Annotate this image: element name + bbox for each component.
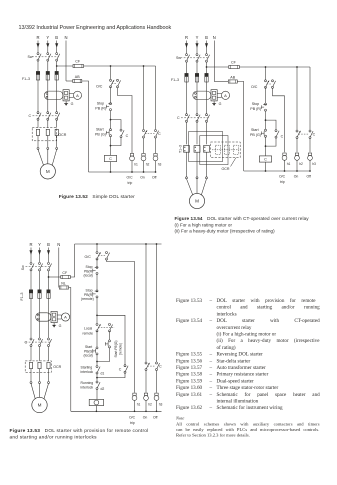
svg-text:C: C	[126, 134, 129, 138]
wire B	[48, 347, 50, 361]
wire O/C aux to h1	[118, 88, 133, 153]
wire R	[30, 298, 32, 338]
svg-text:overcurrent relay: overcurrent relay	[217, 325, 252, 331]
wire h1 to bus	[134, 400, 136, 411]
contactor coil C	[104, 155, 116, 161]
node start branch	[110, 119, 112, 121]
svg-text:Auto transformer starter: Auto transformer starter	[217, 364, 267, 371]
overcurrent contact O/C	[96, 252, 98, 254]
selector linkage	[98, 327, 114, 329]
motor terminal Y	[47, 147, 49, 149]
svg-text:R: R	[36, 35, 39, 40]
fuse F1	[29, 290, 32, 299]
wire B	[56, 136, 58, 148]
svg-text:PB(G): PB(G)	[84, 349, 93, 353]
wire h2 to bus	[296, 160, 298, 171]
svg-text:O/C: O/C	[85, 255, 92, 259]
CT with ammeter and ground G	[44, 91, 63, 99]
OCR heater R	[36, 129, 39, 135]
switch Sw pole Y	[196, 54, 198, 56]
svg-text:h1: h1	[287, 162, 291, 166]
svg-text:PB (R): PB (R)	[95, 107, 106, 111]
svg-text:Sw: Sw	[28, 55, 33, 59]
svg-text:Schematic for instrument wirin: Schematic for instrument wiring	[217, 404, 284, 411]
wire B	[206, 152, 208, 177]
wire Y	[196, 152, 198, 177]
svg-text:C: C	[25, 341, 28, 345]
wire Y	[196, 82, 198, 114]
wire N to AB	[214, 81, 228, 83]
svg-text:internal illumination: internal illumination	[217, 399, 259, 405]
wire h2	[296, 67, 298, 130]
node start branch	[265, 119, 267, 121]
svg-text:Off: Off	[307, 174, 312, 178]
svg-text:C: C	[29, 114, 32, 118]
wire h2	[143, 66, 145, 129]
supply arrow R	[37, 41, 39, 52]
wire R	[37, 61, 39, 71]
svg-text:–: –	[209, 392, 213, 398]
aux contact C for h2	[143, 130, 145, 132]
fuse F3	[47, 290, 50, 299]
wire main	[265, 87, 267, 103]
svg-text:Figure 13.59: Figure 13.59	[176, 378, 202, 384]
wire Y	[47, 51, 49, 53]
svg-text:Sw: Sw	[21, 265, 25, 270]
svg-text:C: C	[109, 157, 112, 161]
svg-text:N: N	[213, 35, 216, 40]
O/C linkage	[112, 83, 117, 85]
supply arrow B	[206, 41, 208, 52]
latch contact C	[275, 130, 277, 132]
svg-text:R: R	[29, 242, 32, 247]
lamp h2	[144, 393, 147, 396]
svg-text:O/C: O/C	[96, 85, 103, 89]
node rejoin	[265, 145, 267, 147]
fuse F1	[36, 71, 39, 80]
wire h3 lamp	[156, 371, 158, 393]
CT T3	[204, 146, 210, 153]
supply arrow Y	[39, 248, 41, 259]
aux contact C for h3	[156, 362, 158, 364]
wire B	[56, 120, 58, 127]
aux contact C for h2	[145, 362, 147, 364]
svg-text:Note: Note	[175, 416, 184, 421]
O/C linkage	[98, 255, 106, 257]
svg-text:d1: d1	[101, 372, 105, 376]
svg-text:Figure 13.53DOL starter with p: Figure 13.53DOL starter with provision f…	[10, 428, 149, 434]
wire h3 to bus	[155, 161, 157, 172]
aux contact C for h3	[155, 130, 157, 132]
svg-text:OCR: OCR	[222, 167, 230, 171]
svg-text:(i) For a high-rating motor or: (i) For a high-rating motor or	[217, 331, 277, 338]
svg-text:Figure 13.58: Figure 13.58	[176, 372, 202, 378]
control fuse CF	[61, 275, 71, 278]
wire h2 lamp	[145, 371, 147, 393]
svg-text:OCR: OCR	[58, 133, 66, 137]
wire N	[65, 41, 67, 82]
wire O/C aux to h1	[273, 88, 285, 152]
CT T1	[184, 146, 190, 153]
switch Sw pole R	[30, 262, 32, 264]
OCR heater Y	[46, 129, 49, 135]
OCR heater B	[55, 129, 58, 135]
svg-text:Starting: Starting	[81, 366, 93, 370]
svg-text:Y: Y	[46, 35, 49, 40]
svg-text:(i) For a high rating motor or: (i) For a high rating motor or	[175, 223, 233, 228]
latch rejoin wire	[266, 138, 277, 146]
selector remote pole	[109, 323, 111, 325]
supply arrow R	[186, 41, 188, 52]
wire R	[186, 152, 188, 177]
contactor C pole B	[206, 114, 208, 116]
svg-text:Figure 13.52Simple DOL starter: Figure 13.52Simple DOL starter	[59, 194, 135, 200]
supply arrow R	[30, 248, 32, 259]
wire Y	[47, 136, 49, 148]
svg-text:Primary resistance starter: Primary resistance starter	[217, 372, 269, 378]
O/C linkage	[267, 83, 272, 85]
control fuse CF	[73, 64, 84, 67]
wire h3 lamp	[309, 139, 311, 153]
svg-text:O/C: O/C	[279, 174, 286, 178]
wire h2 to bus	[145, 400, 147, 411]
svg-text:Figure 13.57: Figure 13.57	[176, 365, 202, 371]
start pushbutton PB(G)	[110, 129, 112, 131]
CT T2	[194, 146, 200, 153]
motor lead B	[44, 384, 49, 400]
wire h1 to bus	[131, 161, 133, 172]
svg-text:AB: AB	[75, 75, 80, 79]
node h2 drop	[296, 66, 298, 68]
svg-text:trip: trip	[280, 180, 285, 184]
wire R	[37, 136, 39, 148]
svg-text:trip: trip	[128, 181, 133, 185]
wire main	[265, 111, 267, 129]
svg-text:On: On	[140, 175, 145, 179]
motor lead B	[201, 179, 206, 195]
start pushbutton local	[96, 347, 98, 349]
OCR pointer	[231, 158, 237, 167]
motor lead Y	[39, 384, 41, 398]
wire R	[186, 122, 188, 144]
wire Y	[39, 298, 41, 338]
svg-text:On: On	[294, 174, 299, 178]
contactor C pole Y	[196, 114, 198, 116]
wire main	[96, 298, 98, 323]
OCR heater B	[47, 362, 50, 368]
O/C aux contact	[106, 252, 108, 254]
OCR heater Y	[38, 362, 41, 368]
node main drop	[110, 65, 112, 67]
svg-text:C: C	[177, 116, 180, 120]
fuse F3	[205, 73, 208, 82]
motor lead Y	[196, 179, 198, 194]
lamp h2	[295, 153, 298, 156]
svg-text:C: C	[119, 367, 122, 371]
svg-text:Schematic for panel space heat: Schematic for panel space heater and	[217, 391, 321, 398]
svg-text:h2: h2	[146, 163, 150, 167]
svg-text:–: –	[209, 318, 213, 324]
svg-text:Three stage stator-rotor start: Three stage stator-rotor starter	[217, 385, 279, 391]
wire R	[30, 369, 32, 382]
latch contact C	[124, 365, 126, 367]
wire O/C aux to h1	[107, 260, 135, 393]
fuse F2	[46, 71, 49, 80]
svg-text:–: –	[209, 358, 213, 364]
latch rejoin wire	[97, 373, 125, 377]
svg-text:T1–3: T1–3	[179, 145, 183, 153]
svg-text:O/C: O/C	[127, 175, 134, 179]
branch wire to C latch	[266, 120, 277, 129]
wire remote rejoin	[97, 348, 110, 362]
fuse F2	[195, 73, 198, 82]
wire N	[213, 41, 215, 82]
svg-text:All control schemes shown with: All control schemes shown with auxiliary…	[176, 421, 320, 426]
motor lead R	[187, 179, 193, 195]
interlock contact d2	[96, 381, 98, 383]
svg-text:DOL starter with CT-operated: DOL starter with CT-operated	[217, 318, 321, 324]
svg-text:and starting and/or running in: and starting and/or running interlocks	[10, 434, 98, 440]
svg-text:DOL starter with provision for: DOL starter with provision for remote	[217, 297, 317, 304]
node rejoin	[110, 145, 112, 147]
svg-text:–: –	[209, 378, 213, 384]
svg-text:Stop: Stop	[252, 102, 259, 106]
wire R	[186, 82, 188, 114]
wire R	[30, 347, 32, 361]
supply arrow Y	[196, 41, 198, 52]
motor terminal R	[30, 382, 32, 384]
CT with ammeter and ground G	[193, 91, 211, 99]
CT secondary loop outer	[189, 132, 223, 162]
svg-text:(local): (local)	[84, 354, 93, 358]
svg-text:C: C	[264, 158, 267, 162]
node B-CF tap	[48, 276, 50, 278]
svg-text:of rating): of rating)	[217, 344, 236, 351]
wire N to AB	[66, 80, 73, 82]
bottom control bus	[89, 171, 156, 173]
svg-text:h3: h3	[312, 162, 316, 166]
svg-text:Stop: Stop	[86, 265, 93, 269]
OCR dashed link	[212, 149, 239, 151]
overload relay OCR box	[25, 361, 51, 372]
svg-text:Figure 13.55: Figure 13.55	[176, 352, 202, 358]
wire h3	[155, 66, 157, 129]
start pushbutton remote	[109, 340, 111, 342]
contactor coil C	[89, 399, 103, 405]
svg-text:Start: Start	[251, 128, 259, 132]
lamp h3	[155, 393, 158, 396]
wire coil to bus	[110, 162, 112, 172]
wire h2 lamp	[296, 139, 298, 153]
wire Y	[39, 347, 41, 361]
aux contact C for h3	[309, 130, 311, 132]
svg-text:B: B	[205, 35, 208, 40]
h2-h3 linkage	[299, 133, 310, 135]
lamp h2	[142, 154, 145, 157]
fuse AB	[228, 80, 237, 83]
wire Y	[47, 80, 49, 112]
wire h2	[145, 244, 147, 362]
latch contact C	[120, 129, 122, 131]
wire B	[206, 122, 208, 144]
wire h2 to bus	[143, 161, 145, 172]
svg-text:A: A	[224, 93, 227, 98]
lamp h3	[308, 153, 311, 156]
stop pushbutton local	[96, 266, 98, 268]
svg-text:A: A	[76, 93, 79, 98]
svg-text:OCR: OCR	[53, 365, 61, 369]
wire Y	[47, 120, 49, 127]
svg-text:PB (R): PB (R)	[250, 107, 261, 111]
switch Sw linkage	[32, 56, 59, 58]
svg-text:–: –	[209, 298, 213, 304]
wire B to CF	[49, 276, 61, 278]
latch rejoin wire	[111, 138, 122, 146]
svg-text:Y: Y	[196, 35, 199, 40]
wire R	[30, 271, 32, 290]
aux contact C for h2	[296, 130, 298, 132]
wire main	[96, 244, 98, 251]
OCR element 3	[233, 145, 238, 154]
node main drop	[265, 66, 267, 68]
node B-CF tap	[206, 66, 208, 68]
lamp h1	[133, 393, 136, 396]
motor M	[40, 164, 55, 179]
wire local path	[96, 331, 98, 347]
switch Sw linkage	[26, 266, 51, 268]
contactor coil C	[259, 156, 271, 162]
wire h3	[309, 67, 311, 130]
wire R	[37, 51, 39, 53]
switch Sw linkage	[181, 57, 209, 59]
svg-text:–: –	[209, 365, 213, 371]
svg-text:Reversing DOL starter: Reversing DOL starter	[217, 352, 264, 358]
branch wire to C latch	[111, 120, 122, 129]
contactor C pole Y	[47, 112, 49, 114]
motor lead R	[31, 384, 35, 400]
svg-text:Refer to Section 13.2.3 for mo: Refer to Section 13.2.3 for more details…	[176, 432, 250, 437]
interlock contact d1	[96, 366, 98, 368]
svg-text:(remote): (remote)	[81, 297, 94, 301]
svg-text:interlock: interlock	[81, 370, 94, 374]
stop pushbutton PB(R)	[265, 103, 267, 105]
wire main	[110, 66, 112, 79]
neutral riser	[69, 288, 71, 412]
svg-text:Start PB(G): Start PB(G)	[114, 340, 118, 357]
svg-text:(ii) For a heavy-duty motor (i: (ii) For a heavy-duty motor (irrespectiv…	[217, 337, 321, 344]
svg-text:h2: h2	[148, 402, 152, 406]
svg-text:can be easily replaced with PL: can be easily replaced with PLCs and mic…	[176, 427, 319, 432]
wire h3 to bus	[156, 400, 158, 411]
switch Sw pole Y	[47, 53, 49, 55]
svg-text:Dual-speed starter: Dual-speed starter	[217, 378, 254, 384]
switch Sw pole Y	[39, 262, 41, 264]
switch Sw pole R	[37, 53, 39, 55]
svg-text:trip: trip	[130, 421, 135, 425]
svg-text:F1–3: F1–3	[22, 77, 30, 81]
wire Y	[39, 271, 41, 290]
svg-text:Start: Start	[96, 127, 104, 131]
node h3 drop	[156, 243, 158, 245]
top control bus	[239, 66, 310, 68]
node main drop	[96, 243, 98, 245]
wire main to coil	[110, 137, 112, 156]
lamp h1	[283, 153, 286, 156]
wire B	[48, 298, 50, 338]
svg-text:Figure 13.62: Figure 13.62	[176, 405, 202, 411]
svg-text:h3: h3	[158, 163, 162, 167]
OCR element 1	[215, 145, 220, 154]
svg-text:Figure 13.56: Figure 13.56	[176, 358, 202, 364]
wire B	[56, 61, 58, 71]
wire B	[206, 51, 208, 54]
svg-text:(local): (local)	[84, 274, 93, 278]
node B-CF tap	[56, 65, 58, 67]
wire main to coil	[96, 390, 98, 400]
wire main	[96, 259, 98, 266]
lamp h1	[130, 154, 133, 157]
contactor C pole R	[30, 338, 32, 340]
fuse F2	[38, 290, 41, 299]
svg-text:Off: Off	[153, 415, 158, 419]
top control bus	[75, 243, 162, 245]
wire CF to bus riser	[70, 244, 74, 277]
svg-text:CF: CF	[231, 61, 237, 65]
wire B	[48, 271, 50, 290]
svg-text:A: A	[64, 315, 67, 320]
start pushbutton PB(G)	[265, 129, 267, 131]
switch Sw pole B	[56, 53, 58, 55]
wire local down	[96, 355, 98, 365]
wire h3	[156, 244, 158, 362]
wire main	[96, 374, 98, 381]
stop pushbutton remote	[96, 290, 98, 292]
svg-text:M: M	[195, 199, 199, 204]
svg-text:G: G	[219, 102, 222, 106]
motor terminal B	[48, 382, 50, 384]
motor lead Y	[47, 149, 49, 164]
svg-text:Off: Off	[152, 175, 157, 179]
motor terminal R	[186, 177, 188, 179]
bottom control bus	[71, 410, 162, 412]
wire B	[56, 51, 58, 53]
svg-text:Sw: Sw	[176, 56, 181, 60]
svg-text:F1–3: F1–3	[171, 78, 179, 82]
svg-text:PB(R): PB(R)	[84, 293, 93, 297]
node h2 drop	[145, 243, 147, 245]
motor terminal B	[56, 147, 58, 149]
contactor C pole B	[56, 112, 58, 114]
svg-text:–: –	[209, 352, 213, 358]
supply arrow B	[48, 248, 50, 259]
stop pushbutton PB(R)	[110, 103, 112, 105]
svg-text:N: N	[57, 242, 60, 247]
lamp h3	[154, 154, 157, 157]
contactor C pole Y	[39, 338, 41, 340]
wire R	[186, 62, 188, 73]
wire B to CF	[57, 65, 73, 67]
supply arrow Y	[47, 41, 49, 52]
switch Sw pole B	[206, 54, 208, 56]
svg-text:Figure 13.54DOL starter with C: Figure 13.54DOL starter with CT-operated…	[175, 216, 310, 221]
wire Y	[196, 122, 198, 144]
svg-text:PB (G): PB (G)	[250, 133, 261, 137]
motor terminal Y	[196, 177, 198, 179]
wire main	[110, 111, 112, 129]
svg-text:Y: Y	[38, 242, 41, 247]
wire Y	[196, 51, 198, 54]
wire main to coil	[265, 137, 267, 156]
